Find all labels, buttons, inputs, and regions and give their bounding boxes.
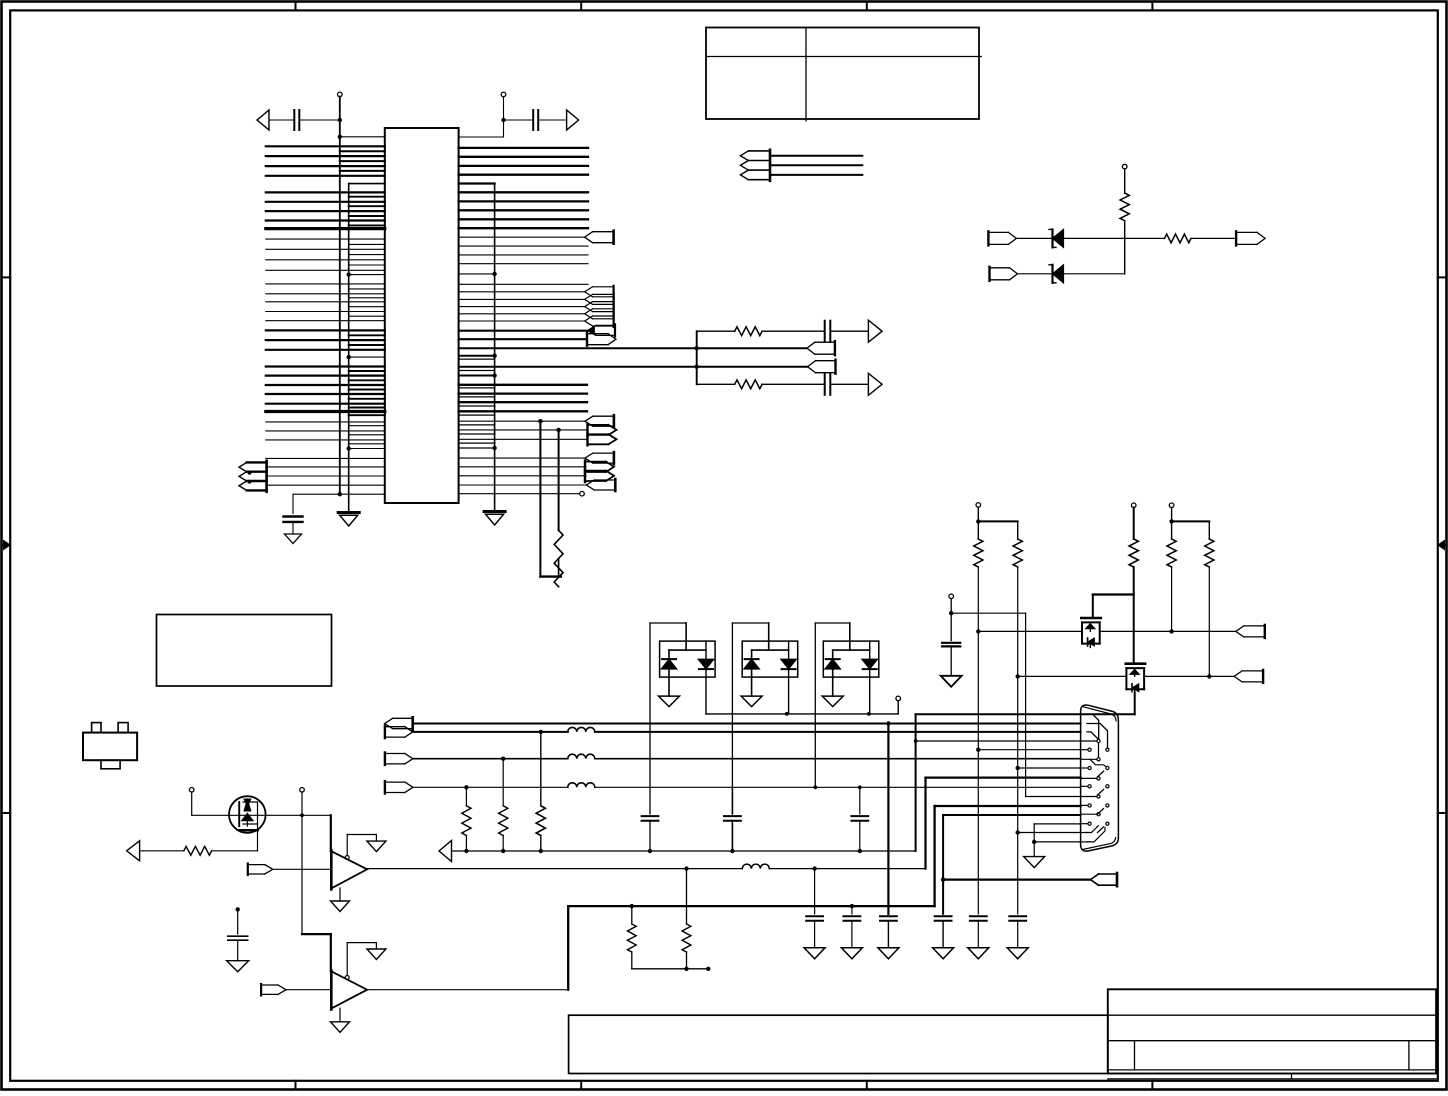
capacitor C6 below group2 xyxy=(724,815,741,817)
ground arrow C14 xyxy=(941,676,962,687)
wire R4 to bus851 xyxy=(465,836,467,852)
wire stub V1 to U1 y171 xyxy=(340,170,385,172)
port P11 output xyxy=(585,461,606,463)
wire U1 right pin thick row y210 xyxy=(459,209,588,211)
wire R13 net down xyxy=(1208,567,1210,676)
wire U1 right pin to port cluster y314 xyxy=(459,313,585,315)
wire vertical x915 xyxy=(915,714,917,851)
connector internal route bottom diag xyxy=(1087,828,1105,842)
crystal Y1 top tab 1 xyxy=(92,723,101,733)
wire row 758 left xyxy=(413,758,568,760)
border zone tick left 2 xyxy=(2,812,11,814)
Q1 internals xyxy=(229,814,266,816)
junction dot row906 R7 xyxy=(630,904,634,908)
capacitor C1 top-left xyxy=(269,119,294,121)
wire rail1 xyxy=(978,520,1017,522)
wire R2 to port P15 xyxy=(1191,237,1234,239)
vertical VD2 lower xyxy=(558,559,560,577)
port P25 far xyxy=(815,341,835,343)
port P24 xyxy=(1242,670,1263,672)
wire U1 right pin thick row y219 xyxy=(459,218,588,220)
title block outline xyxy=(1108,989,1436,1073)
diode D1 schottky xyxy=(1053,229,1064,247)
open terminal circle bus end xyxy=(897,701,899,714)
op-amp U2A triangle xyxy=(331,851,367,888)
wire bus 969 xyxy=(632,968,709,970)
border zone tick top 3 xyxy=(866,2,868,11)
junction dot N2 xyxy=(949,611,953,615)
wire U1 right pin row y264 xyxy=(459,263,588,265)
junction dot V1 top pin xyxy=(338,135,342,139)
wire R1 bottom to row2 xyxy=(1124,221,1126,274)
bus vertical VR right of U1 xyxy=(494,184,496,512)
junction dot R10 M2row xyxy=(1016,674,1020,678)
resistor R3 horizontal xyxy=(184,846,212,855)
junction dot bus851 C5 xyxy=(648,849,652,853)
connector row 714 entry xyxy=(1081,713,1087,715)
capacitor C16 xyxy=(824,374,826,395)
wire stub V2 to U1 y206 xyxy=(349,205,385,207)
clamp diode pair group at x742 xyxy=(731,623,733,787)
wire row 731 left xyxy=(413,731,568,733)
wire C16 to arrow xyxy=(830,383,868,385)
capacitor C10 row869 net xyxy=(814,869,816,914)
wire R15 to C16 xyxy=(762,383,825,385)
wire U1 left pin thick row y166 xyxy=(266,165,385,167)
junction dot V1 cap node xyxy=(338,118,342,122)
open terminal circle row 494 xyxy=(580,491,585,496)
wire U1 right pin thick row y166 xyxy=(459,165,588,167)
wire R6 to bus851 xyxy=(540,836,542,852)
wire stub V2 to U1 with junction y357 xyxy=(349,356,385,358)
wire row741 branch xyxy=(914,739,918,743)
capacitor C9 xyxy=(880,915,897,917)
open terminal circle right xyxy=(501,92,506,97)
border centre arrow left xyxy=(2,544,7,546)
inductor FB2 xyxy=(568,754,595,759)
border zone tick bottom 3 xyxy=(866,1081,868,1090)
wire U1 left pin row y467 xyxy=(266,466,385,468)
open terminal circle R12 rail xyxy=(1169,503,1174,508)
wire U1 left pin thick row y202 xyxy=(266,201,385,203)
wire Q1 source left to R3 xyxy=(212,850,258,852)
port trio top-centre (3 stacked ports) xyxy=(740,151,748,161)
wire U1 left pin row y239 xyxy=(266,238,385,240)
junction dot row869 x814 xyxy=(812,866,816,870)
wire group2 vertical extension xyxy=(731,787,733,814)
wire opamp2 output row 990 xyxy=(367,989,568,991)
open terminal circle Q1 gate xyxy=(189,788,194,793)
wire U1 right to port row 476 xyxy=(459,475,586,477)
junction dot bus851 C6 xyxy=(730,849,734,853)
junction dot rail3 xyxy=(1169,519,1173,523)
ground arrow C9 xyxy=(878,948,899,959)
wire D1 to R2 xyxy=(1065,237,1165,239)
resistor R4 vertical xyxy=(462,806,471,836)
connector J1 pin stubs xyxy=(1081,740,1097,742)
connector J1 shell xyxy=(1081,705,1119,851)
border zone tick bottom 1 xyxy=(295,1081,297,1090)
wire stub U1 to VR y359 xyxy=(459,358,495,360)
wire stub U1 to VR y388 xyxy=(459,387,495,389)
op-amp U2B triangle xyxy=(331,971,367,1008)
resistor R7 vertical xyxy=(631,906,633,924)
port P15 output row1 xyxy=(1236,231,1257,233)
open terminal circle R9 rail xyxy=(976,503,981,508)
resistor R13 xyxy=(1205,539,1214,567)
wire opamp2 up corner2 xyxy=(933,806,935,906)
title block strip divider xyxy=(1291,1074,1293,1079)
crystal Y1 bottom tab xyxy=(101,760,120,769)
junction dot R12 row631 xyxy=(1169,629,1173,633)
wire U1 left pin row y260 xyxy=(266,259,385,261)
wire N2 to connector row796 xyxy=(1026,796,1081,798)
wire opamp2 power xyxy=(346,943,348,976)
wire U1 left pin row y440 xyxy=(266,439,385,441)
title block bottom strip xyxy=(1108,1078,1436,1080)
capacitor C2 below-left of U1 xyxy=(292,494,294,513)
port P5 right side xyxy=(593,231,614,233)
wire row 731 right xyxy=(595,731,1081,733)
wire opamp1 out up corner xyxy=(924,778,926,869)
wire U1 right far row 348 (to port group) xyxy=(459,347,807,349)
wire U1 left pin row y294 xyxy=(266,293,385,295)
junction dot R9 row749 xyxy=(976,748,980,752)
border zone tick top 2 xyxy=(580,2,582,11)
wire U1 right thick row y411 xyxy=(459,410,587,412)
resistor R10 xyxy=(1013,539,1022,567)
port cluster right y292 xyxy=(593,286,614,288)
wire row842 to connector xyxy=(1034,841,1080,843)
wire stub V2 to U1 y225 xyxy=(349,224,385,226)
wire U1 left pin row y458 xyxy=(266,457,385,459)
wire U1 right pin to port row 237 xyxy=(459,236,585,238)
port P5b row330 xyxy=(596,324,615,326)
junction dot bus969 end xyxy=(706,967,710,971)
wire drop from row 787 xyxy=(465,787,467,806)
wire M2 row 676 xyxy=(1018,675,1127,677)
wire stub V2 to U1 y371 xyxy=(349,370,385,372)
wire M1 row 631 xyxy=(978,630,1082,632)
wire stub U1 to VR with junction y356 xyxy=(459,355,495,357)
wire R13 drop xyxy=(1208,521,1210,539)
wire U1 right row 494 to open terminal xyxy=(459,493,580,495)
wire U1 right pin thick row y175 xyxy=(459,174,588,176)
wire U1 left pin extra-thick row y229 xyxy=(266,227,385,230)
port cluster right y299 xyxy=(593,293,614,295)
wire U1 left pin thick row y350 xyxy=(266,349,385,351)
port P20 row 731 (output) xyxy=(385,726,405,728)
open terminal circle net N2 xyxy=(949,594,954,599)
wire group1 vertical extension xyxy=(649,787,651,814)
junction dot R13 row676 xyxy=(1207,674,1211,678)
resistor R-VD2 vertical xyxy=(554,530,563,586)
wire U1 left pin thick row y404 xyxy=(266,403,385,405)
junction dot port PA row3 xyxy=(248,480,252,484)
wire stub V2 to U1 thin y255 xyxy=(349,254,385,256)
junction dot row 731 V drop xyxy=(539,730,543,734)
wire drop from row 731 xyxy=(540,732,542,806)
port P18 input opamp2 xyxy=(261,984,278,986)
junction dot row 787 a xyxy=(464,785,468,789)
solid arrowhead row 330 xyxy=(587,326,594,335)
wire U1 right pin to port cluster y292 xyxy=(459,291,585,293)
wire U1 left pin thick row y394 xyxy=(266,393,385,395)
wire U1 left pin thick row y146 xyxy=(266,145,385,147)
wire stub V2 to U1 thin y298 xyxy=(349,297,385,299)
open terminal circle top of R1 xyxy=(1122,164,1127,169)
ground arrow opamp1 power xyxy=(375,835,377,842)
wire stub V1 to U1 y151 xyxy=(340,150,385,152)
wire stub V2 to U1 y399 xyxy=(349,398,385,400)
wire Q1 source down xyxy=(257,824,259,851)
wire opamp1 output row 869 xyxy=(367,868,742,870)
wire U1 right thick row y402 xyxy=(459,401,587,403)
resistor R6 vertical xyxy=(536,806,545,836)
junction dot C4 top xyxy=(236,907,240,911)
connector internal route row714 xyxy=(1087,714,1099,738)
wire U1 left pin thick row y385 xyxy=(266,384,385,386)
ground bus below diode groups xyxy=(706,713,898,715)
wire stub V2 to U1 thin y426 xyxy=(349,425,385,427)
MOSFET Q2 small xyxy=(1081,617,1100,620)
revision table row divider xyxy=(706,56,981,58)
wire U1 right pin to port cluster y321 xyxy=(459,320,585,322)
connector internal route row759 diag xyxy=(1090,759,1106,766)
wire R3 to arrow xyxy=(140,850,184,852)
wire row 758 right xyxy=(595,758,1081,760)
wire R14 to C15 xyxy=(762,330,825,332)
border zone tick right 1 xyxy=(1438,276,1447,278)
wire stub V2 to U1 with junction y448 xyxy=(349,448,385,450)
port cluster right y314 xyxy=(593,308,614,310)
junction dot bus851 R4 xyxy=(464,849,468,853)
wire M1 top feed xyxy=(1092,595,1094,618)
resistor R8 vertical xyxy=(686,869,688,924)
wire row869 right xyxy=(769,868,925,870)
junction dot x697 row348 xyxy=(695,346,699,350)
wire port to opamp1 xyxy=(273,868,332,870)
wire U1 left pin row y270 xyxy=(266,269,385,271)
wire U1 right pin thick row y201 xyxy=(459,200,588,202)
revision table column divider xyxy=(805,28,807,121)
open terminal circle V1 top xyxy=(338,92,343,97)
wire U1 right to port row 439 xyxy=(459,438,587,440)
port P27 row880 xyxy=(1099,873,1118,875)
wire opamp1 power xyxy=(346,835,348,856)
wire U1 left pin extra-thick row y412 xyxy=(266,410,385,413)
capacitor C5 below group1 xyxy=(642,815,659,817)
wire drop from row 758 xyxy=(502,759,504,806)
junction dot bus851 x860 xyxy=(858,849,862,853)
port P9 output xyxy=(588,433,609,435)
wire R10 drop xyxy=(1017,521,1019,539)
capacitor C3 top-right xyxy=(504,119,533,121)
wire U1 left pin thick row y220 xyxy=(266,219,385,221)
clamp diode pair group at x660 xyxy=(649,623,651,787)
port P6 output right xyxy=(587,333,608,335)
resistor R1 vertical xyxy=(1120,193,1129,221)
wire port to opamp2 xyxy=(286,989,331,991)
wire U1 right pin thick row y157 xyxy=(459,156,588,158)
wire U1 left pin row y431 xyxy=(266,430,385,432)
wire stub V2 to U1 thin y307 xyxy=(349,306,385,308)
note box bottom xyxy=(569,1015,1108,1073)
connector rows 833 842 entry xyxy=(1081,832,1087,834)
wire R11 top xyxy=(1133,508,1135,539)
title block sub row xyxy=(1108,1069,1436,1071)
vertical x889 cap net thick xyxy=(887,724,889,914)
IC U1 body xyxy=(385,128,459,503)
resistor R11 xyxy=(1129,539,1138,567)
wire stub V1 to U1 y161 xyxy=(340,160,385,162)
capacitor C15 xyxy=(824,321,826,342)
wire stub V2 to U1 thin y316 xyxy=(349,315,385,317)
wire stub U1 to VR y397 xyxy=(459,396,495,398)
ground arrow connector shield xyxy=(1024,857,1045,868)
wire U1 right pin thick row y228 xyxy=(459,227,588,229)
wire into opamp2 top xyxy=(330,934,332,971)
wire U1 right thick row 330 with arrow xyxy=(459,330,588,332)
wire N1 vertical xyxy=(301,792,303,934)
wire stub V2 to U1 y335 xyxy=(349,334,385,336)
wire U1 left pin row y302 xyxy=(266,301,385,303)
wire U1 left pin row y485 xyxy=(266,484,385,486)
title block sub divider 1 xyxy=(1134,1041,1136,1070)
wire VR top corner to U1 xyxy=(459,182,495,184)
wire U1 left pin thick row y211 xyxy=(266,210,385,212)
wire stub V2 to U1 y216 xyxy=(349,215,385,217)
title block line 3 xyxy=(1108,1040,1436,1042)
wire stub U1 to VR y425 xyxy=(459,424,495,426)
title block line 2 xyxy=(1108,1014,1436,1016)
ground symbol below VR xyxy=(484,510,505,513)
wire stub U1 to VR y406 xyxy=(459,405,495,407)
wire U1 right to port row 485 xyxy=(459,484,587,486)
port P16 input row2 xyxy=(990,267,1010,269)
wire stub U1 to VR with junction y448 xyxy=(459,447,495,449)
wire N2 top xyxy=(950,599,952,641)
crystal Y1 body xyxy=(83,733,137,761)
MOSFET Q3 small xyxy=(1126,662,1145,665)
wire R9 net down xyxy=(977,567,979,914)
clamp diode pair group at x823 xyxy=(814,623,816,787)
wire opamp2 bottom pin xyxy=(339,1008,341,1022)
vertical VD1 down from row 421 xyxy=(539,421,541,576)
wire stub V2 to U1 thin y265 xyxy=(349,264,385,266)
junction dot row906 x851 xyxy=(850,904,854,908)
wire U1 left pin thick row y192 xyxy=(266,191,385,193)
wire stub U1 to VR y443 xyxy=(459,442,495,444)
wire opamp1 bottom pin xyxy=(339,888,341,901)
wire U1 right thick row 339 xyxy=(459,338,587,340)
wire port to D2 xyxy=(1018,273,1052,275)
wire stub U1 to VR y415 xyxy=(459,414,495,416)
wire right dot-row 273 xyxy=(459,273,495,275)
wire U1 right pin row y284 xyxy=(459,283,588,285)
resistor R5 vertical xyxy=(499,806,508,836)
ground net vertical x1034 xyxy=(1033,824,1035,857)
wire Q1 drain to corner xyxy=(266,814,331,816)
border zone tick bottom 4 xyxy=(1151,1081,1153,1090)
wire stub V2 to U1 y390 xyxy=(349,389,385,391)
capacitor C4 xyxy=(237,909,239,934)
ground symbol below V2 xyxy=(338,511,359,514)
wire x943 to connector row815 xyxy=(943,814,1081,816)
junction dot bus851 R5 xyxy=(501,849,505,853)
wire stub U1 to VR y370 xyxy=(459,370,495,372)
wire R11 down xyxy=(1133,567,1135,664)
wire rail3 xyxy=(1172,520,1210,522)
wire stub V2 to U1 thin y289 xyxy=(349,288,385,290)
wire trio row 3 xyxy=(770,174,862,176)
port P21 row 758 (output) xyxy=(385,753,405,755)
ground arrow C8 xyxy=(933,948,954,959)
ground symbol below C2 xyxy=(285,534,302,544)
wire R12 net down xyxy=(1171,567,1173,631)
bus vertical V1 left xyxy=(339,97,341,495)
border centre arrow right xyxy=(1442,544,1447,546)
capacitor C11 row906 net xyxy=(851,906,853,914)
vertical VD2 upper xyxy=(558,430,560,530)
arrow terminal row A xyxy=(868,320,882,342)
title block sub divider 2 xyxy=(1408,1041,1410,1070)
wire N2 rail right xyxy=(951,612,1025,614)
port P22 row 787 (output) xyxy=(385,781,405,783)
wire U1 right pin thick row y192 xyxy=(459,191,588,193)
wire bus 851 xyxy=(452,850,916,852)
arrow terminal bus 851 xyxy=(439,841,452,862)
port P26 far xyxy=(816,360,836,362)
MOSFET Q1 circle xyxy=(229,796,266,833)
arrow terminal right C3 xyxy=(567,110,579,130)
wire connector rows from nets xyxy=(978,749,1080,751)
wire U1 left pin thick row y156 xyxy=(266,155,385,157)
connector internal route row722 xyxy=(1087,724,1108,748)
port cluster right y321 xyxy=(593,315,614,317)
junction dot port PA row2 xyxy=(248,471,252,475)
junction dot x943 row880 xyxy=(941,877,945,881)
wire U1 right pin to port cluster y307 xyxy=(459,306,585,308)
port P14 input row1 xyxy=(988,231,1008,233)
ground arrow C4 xyxy=(227,961,249,972)
wire U1 right to port row 467 xyxy=(459,466,586,468)
junction dot row869 x686 xyxy=(684,866,688,870)
wire row D 384 xyxy=(697,383,735,385)
border zone tick top 4 xyxy=(1151,2,1153,11)
junction dot bus969 R8 xyxy=(684,967,688,971)
junction dot row 787 b xyxy=(813,785,817,789)
wire U1 left pin thick row y176 xyxy=(266,175,385,177)
resistor R9 xyxy=(974,539,983,567)
wire N1 corner to opamp2 xyxy=(302,933,331,935)
wire row 787 left xyxy=(413,786,568,788)
wire U1 right pin thick row y148 xyxy=(459,147,588,149)
wire U1 right pin to port cluster y299 xyxy=(459,298,585,300)
wire R10 net down xyxy=(1017,567,1019,914)
wire U1 left pin thick row y340 xyxy=(266,339,385,341)
bus vertical V2 left xyxy=(348,184,350,513)
arrow terminal row D xyxy=(868,373,882,395)
ground arrow C10 xyxy=(804,948,825,959)
opamp2 power pin circle xyxy=(345,976,349,980)
wire bottom-left pin row with V1 junction xyxy=(293,493,385,495)
wire stub V2 to U1 thin y244 xyxy=(349,243,385,245)
wire U1 left pin row y422 xyxy=(266,421,385,423)
wire U1 left pin row y284 xyxy=(266,283,385,285)
capacitor C7 xyxy=(851,815,868,817)
port P17 input opamp1 xyxy=(248,864,265,866)
